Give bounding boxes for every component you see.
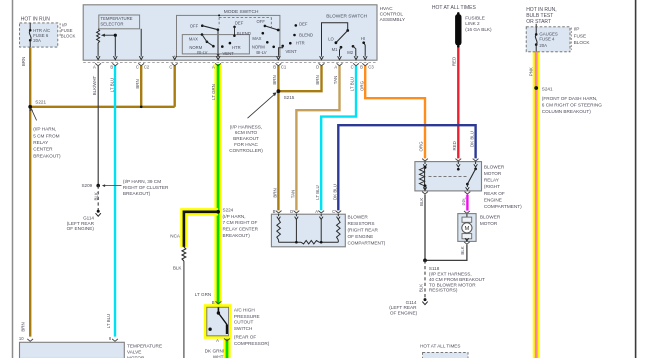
svg-text:BRN: BRN (21, 322, 26, 331)
svg-text:BREAKOUT: BREAKOUT (233, 136, 259, 141)
svg-text:VALVE: VALVE (127, 349, 141, 354)
svg-text:S118: S118 (429, 266, 440, 271)
svg-text:C: C (169, 65, 172, 70)
svg-text:BLOCK: BLOCK (61, 33, 76, 38)
svg-text:40 CM FROM BREAKOUT: 40 CM FROM BREAKOUT (429, 277, 485, 282)
svg-text:D: D (316, 65, 319, 70)
svg-text:BREAKOUT): BREAKOUT) (123, 191, 151, 196)
svg-text:A/C HIGH: A/C HIGH (234, 307, 255, 312)
svg-text:MAX: MAX (189, 36, 198, 41)
svg-text:(I/P HARNESS,: (I/P HARNESS, (230, 124, 262, 129)
svg-text:HOT IN RUN: HOT IN RUN (21, 16, 50, 22)
svg-text:LINK 2: LINK 2 (465, 21, 480, 26)
svg-text:COMPARTMENT): COMPARTMENT) (348, 240, 386, 245)
svg-text:MOTOR: MOTOR (484, 171, 502, 176)
svg-text:RELAY: RELAY (33, 140, 49, 145)
svg-text:LT BLU: LT BLU (109, 78, 114, 92)
svg-text:RED: RED (452, 141, 457, 150)
svg-text:BRN: BRN (21, 57, 26, 66)
svg-text:BRN: BRN (135, 79, 140, 88)
svg-text:LT GRN: LT GRN (211, 84, 216, 100)
svg-text:WHT: WHT (213, 354, 224, 358)
svg-text:20A: 20A (33, 38, 41, 43)
svg-text:I/P: I/P (62, 23, 67, 28)
svg-text:6 CM RIGHT OF STEERING: 6 CM RIGHT OF STEERING (542, 103, 602, 108)
svg-text:DEF: DEF (235, 21, 244, 26)
svg-text:(I/P HARN,: (I/P HARN, (223, 214, 246, 219)
svg-text:BRN: BRN (272, 75, 277, 84)
svg-text:5 CM FROM: 5 CM FROM (33, 133, 59, 138)
svg-text:BLOCK: BLOCK (574, 40, 591, 45)
svg-text:10: 10 (19, 336, 24, 341)
svg-text:BLK: BLK (94, 192, 99, 200)
svg-text:I/P: I/P (574, 27, 580, 32)
svg-text:RELAY: RELAY (484, 178, 500, 183)
svg-text:(LEFT REAR: (LEFT REAR (389, 305, 417, 310)
svg-text:M2: M2 (347, 50, 353, 55)
svg-text:BLOWER: BLOWER (480, 214, 501, 219)
svg-text:SELECTOR: SELECTOR (100, 22, 123, 27)
svg-text:M1: M1 (332, 47, 338, 52)
svg-text:HVAC: HVAC (380, 6, 394, 12)
svg-text:7 CM RIGHT OF: 7 CM RIGHT OF (223, 220, 258, 225)
svg-text:A: A (93, 65, 96, 70)
svg-text:CUTOUT: CUTOUT (234, 319, 254, 324)
svg-text:BREAKOUT): BREAKOUT) (33, 153, 61, 158)
svg-text:NCA: NCA (170, 233, 181, 238)
svg-text:B: B (273, 209, 276, 214)
svg-text:ASSEMBLY: ASSEMBLY (380, 17, 406, 23)
svg-text:LT GRN: LT GRN (195, 292, 211, 297)
svg-text:B: B (360, 65, 363, 70)
svg-text:C2: C2 (144, 65, 150, 70)
svg-text:RED: RED (452, 57, 457, 66)
svg-text:C: C (351, 65, 354, 70)
svg-text:B: B (212, 300, 215, 305)
svg-text:C3: C3 (368, 65, 374, 70)
svg-text:PRESSURE: PRESSURE (234, 314, 260, 319)
svg-text:FUSE: FUSE (574, 33, 587, 38)
svg-text:ENGINE: ENGINE (484, 197, 502, 202)
svg-text:S209: S209 (81, 183, 92, 188)
svg-text:HTR: HTR (232, 45, 241, 50)
svg-text:LT BLU: LT BLU (350, 77, 355, 91)
svg-text:CONTROLLER): CONTROLLER) (229, 148, 263, 153)
svg-text:TEMPERATURE: TEMPERATURE (127, 343, 162, 348)
svg-text:BLK/WHT: BLK/WHT (92, 75, 97, 95)
svg-text:HOT AT ALL TIMES: HOT AT ALL TIMES (420, 344, 460, 349)
svg-text:A: A (216, 338, 219, 343)
svg-text:COMPARTMENT): COMPARTMENT) (484, 204, 522, 209)
svg-text:SWITCH: SWITCH (234, 326, 253, 331)
svg-text:A: A (334, 65, 337, 70)
svg-text:(I/P HARN,: (I/P HARN, (33, 127, 56, 132)
svg-text:PPL: PPL (461, 197, 466, 206)
svg-text:C: C (332, 209, 335, 214)
svg-text:BRN: BRN (315, 75, 320, 84)
svg-text:CONTROL: CONTROL (380, 12, 404, 18)
svg-text:LO: LO (328, 36, 334, 41)
svg-text:OR START: OR START (526, 19, 551, 25)
svg-text:G114: G114 (406, 300, 417, 305)
svg-text:C1: C1 (281, 65, 287, 70)
svg-text:M: M (464, 226, 469, 232)
svg-text:(I/P HARN, 39 CM: (I/P HARN, 39 CM (123, 179, 161, 184)
svg-text:OF ENGINE): OF ENGINE) (390, 311, 418, 316)
svg-text:RESISTORS: RESISTORS (348, 221, 375, 226)
svg-text:HI: HI (361, 36, 365, 41)
svg-text:(I/P EXT HARNESS,: (I/P EXT HARNESS, (429, 272, 472, 277)
svg-text:FOR HVAC: FOR HVAC (234, 142, 258, 147)
svg-text:S241: S241 (542, 86, 553, 91)
svg-text:ORG: ORG (418, 141, 423, 152)
svg-text:OF ENGINE: OF ENGINE (348, 234, 374, 239)
svg-text:TEMPERATURE: TEMPERATURE (100, 16, 132, 21)
svg-text:VENT: VENT (223, 51, 235, 56)
svg-text:OFF: OFF (257, 19, 266, 24)
svg-text:CENTER: CENTER (33, 147, 53, 152)
svg-text:20A: 20A (539, 43, 547, 48)
svg-text:FUSIBLE: FUSIBLE (465, 16, 485, 21)
svg-text:MAX: MAX (252, 36, 261, 41)
svg-text:BRN: BRN (273, 188, 278, 197)
svg-text:TAN: TAN (290, 190, 295, 198)
svg-text:6CM INTO: 6CM INTO (235, 130, 258, 135)
svg-text:TAN: TAN (333, 76, 338, 84)
svg-text:BLOWER: BLOWER (348, 214, 369, 219)
svg-text:RELAY CENTER: RELAY CENTER (223, 227, 259, 232)
svg-text:S224: S224 (223, 207, 234, 212)
svg-text:PNK: PNK (529, 67, 534, 76)
svg-text:BLK: BLK (460, 246, 465, 254)
svg-text:COMPRESSOR): COMPRESSOR) (234, 341, 270, 346)
svg-text:RIGHT OF CLUSTER: RIGHT OF CLUSTER (123, 185, 169, 190)
svg-text:LT BLU: LT BLU (106, 314, 111, 328)
svg-text:DK BLU: DK BLU (469, 131, 474, 147)
svg-text:HOT AT ALL TIMES: HOT AT ALL TIMES (432, 5, 477, 11)
svg-text:BLEND: BLEND (237, 31, 251, 36)
svg-text:NORM: NORM (189, 45, 202, 50)
svg-text:FUSE 4: FUSE 4 (539, 37, 555, 42)
svg-text:(RIGHT: (RIGHT (484, 184, 500, 189)
svg-text:G114: G114 (83, 215, 94, 220)
svg-text:COLUMN BREAKOUT): COLUMN BREAKOUT) (542, 109, 591, 114)
svg-text:BLEND: BLEND (299, 33, 313, 38)
svg-text:MODE SWITCH: MODE SWITCH (224, 9, 259, 15)
svg-text:HTR: HTR (296, 41, 305, 46)
svg-text:MOTOR: MOTOR (480, 221, 498, 226)
svg-text:BLK: BLK (418, 284, 423, 292)
svg-text:BLOWER SWITCH: BLOWER SWITCH (326, 14, 368, 20)
svg-text:A: A (315, 209, 318, 214)
svg-text:TO BLOWER MOTOR: TO BLOWER MOTOR (429, 282, 476, 287)
svg-text:(FRONT OF DASH HARN,: (FRONT OF DASH HARN, (542, 96, 598, 101)
svg-text:BLK: BLK (173, 266, 183, 271)
svg-text:BLOWER: BLOWER (484, 164, 505, 169)
svg-text:B: B (110, 65, 113, 70)
svg-text:(RIGHT REAR: (RIGHT REAR (348, 227, 379, 232)
svg-text:(REAR OF: (REAR OF (234, 335, 257, 340)
svg-text:BREAKOUT): BREAKOUT) (223, 233, 251, 238)
svg-text:OF ENGINE): OF ENGINE) (67, 226, 95, 231)
svg-text:NORM: NORM (252, 44, 265, 49)
svg-text:S221: S221 (35, 99, 46, 104)
svg-text:OFF: OFF (190, 23, 199, 28)
svg-text:DK BLU: DK BLU (332, 184, 337, 200)
svg-text:ORG: ORG (359, 80, 364, 91)
svg-text:LT BLU: LT BLU (315, 185, 320, 199)
svg-text:(16 GA BLK): (16 GA BLK) (465, 27, 492, 32)
svg-text:FUSE: FUSE (61, 28, 73, 33)
svg-text:RESISTORS): RESISTORS) (429, 288, 458, 293)
svg-text:REAR OF: REAR OF (484, 191, 505, 196)
svg-text:DK GRN/: DK GRN/ (205, 348, 225, 353)
svg-text:DEF: DEF (299, 22, 308, 27)
svg-text:BLK: BLK (419, 198, 424, 206)
svg-text:B: B (273, 65, 276, 70)
svg-text:VENT: VENT (286, 49, 298, 54)
svg-text:D: D (290, 209, 293, 214)
svg-text:BI-LV: BI-LV (256, 50, 266, 55)
svg-text:HOT IN RUN,: HOT IN RUN, (526, 7, 556, 13)
svg-text:A: A (212, 65, 215, 70)
svg-text:S215: S215 (284, 95, 295, 100)
svg-text:C: C (136, 65, 139, 70)
svg-text:BI-LV: BI-LV (197, 50, 207, 55)
